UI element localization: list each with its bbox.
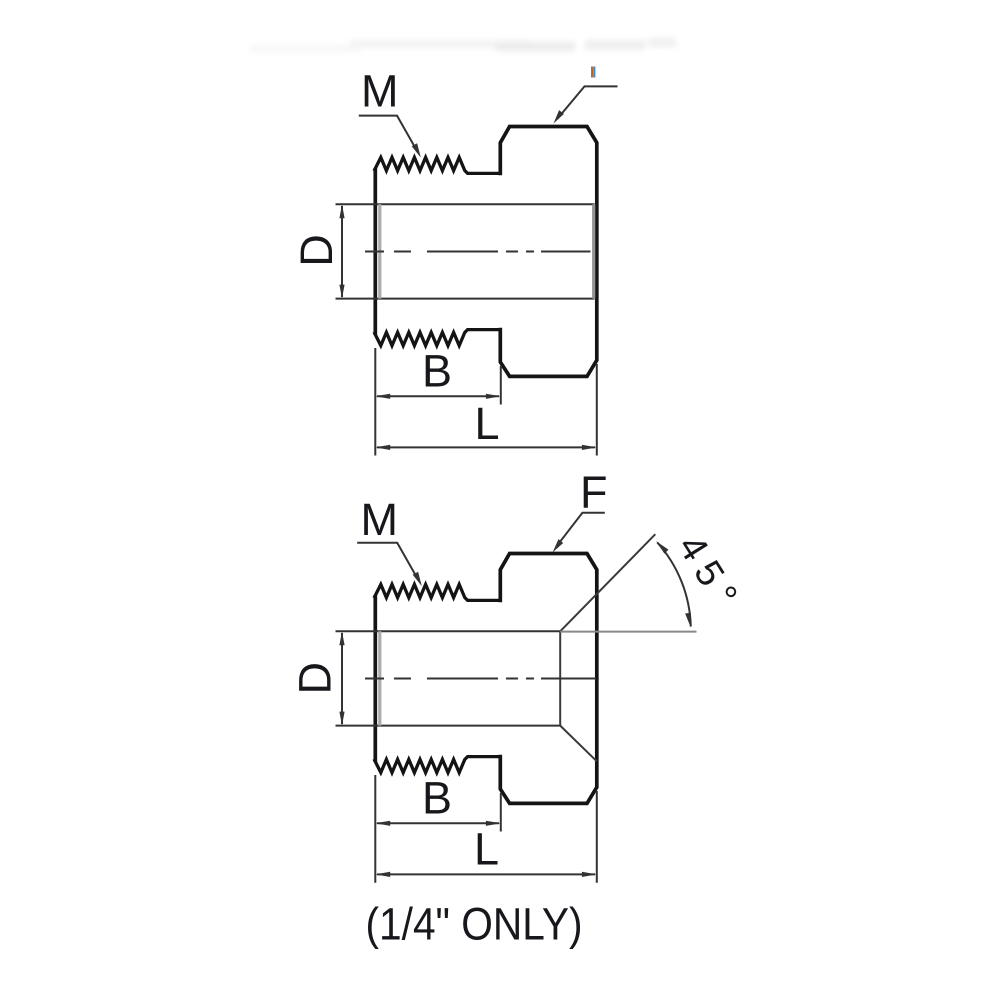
top view: gray bore end line right bbox=[592, 204, 595, 298]
svg-text:B: B bbox=[422, 773, 452, 824]
bottom view: bore top line bbox=[336, 630, 561, 632]
bottom view: gray face band left bbox=[378, 631, 381, 725]
top view: B dimension bbox=[375, 348, 501, 456]
bottom view: hex body outline bbox=[500, 554, 597, 804]
bottom view: B dimension bbox=[375, 775, 501, 883]
L right extension line bbox=[596, 364, 598, 456]
B right extension line bbox=[500, 366, 502, 405]
top view: lower thread zigzag and root bbox=[374, 330, 500, 346]
L dimension line bbox=[377, 873, 595, 875]
svg-text:M: M bbox=[361, 66, 399, 117]
bottom view: centerline bbox=[365, 678, 596, 680]
svg-text:B: B bbox=[422, 346, 452, 397]
svg-text:L: L bbox=[474, 824, 499, 875]
top view: D dimension line with arrows bbox=[339, 204, 344, 298]
L dimension line bbox=[377, 446, 595, 448]
bottom view: D dimension line with arrows bbox=[339, 631, 344, 725]
svg-text:L: L bbox=[474, 398, 499, 449]
bottom view: M leader bbox=[357, 543, 422, 586]
svg-text:F: F bbox=[580, 467, 608, 518]
bottom view: upper thread zigzag and root bbox=[374, 584, 500, 600]
left extension line bbox=[374, 775, 376, 883]
svg-text:M: M bbox=[361, 494, 399, 545]
B right extension line bbox=[500, 793, 502, 832]
svg-text:(1/4" ONLY): (1/4" ONLY) bbox=[366, 899, 583, 950]
bottom view: F leader bbox=[553, 513, 605, 553]
faint ghost smudges top bbox=[250, 38, 676, 52]
bottom view: L dimension bbox=[375, 791, 597, 883]
top view: F letter stub remnant bbox=[591, 67, 593, 78]
top view: hex body outline bbox=[500, 127, 597, 377]
top view: upper thread zigzag and root bbox=[374, 157, 500, 173]
svg-text:45°: 45° bbox=[669, 528, 749, 622]
B dimension line bbox=[377, 395, 499, 397]
bottom view: lower thread zigzag and root bbox=[374, 757, 500, 773]
top view: centerline bbox=[365, 251, 591, 253]
top view: L dimension bbox=[375, 364, 597, 456]
svg-text:D: D bbox=[290, 662, 341, 695]
svg-text:D: D bbox=[291, 234, 342, 267]
bottom view: left face edge bbox=[373, 597, 377, 760]
L right extension line bbox=[596, 791, 598, 883]
bottom view: countersink upper cone + 45 deg reference bbox=[560, 534, 655, 631]
bottom view: 45 deg arc with arrows bbox=[657, 543, 691, 627]
top view: bore top line bbox=[336, 203, 595, 205]
bottom view: 45 deg horizontal reference line bbox=[560, 631, 696, 633]
bottom view: countersink lower cone bbox=[560, 726, 597, 762]
left extension line bbox=[374, 348, 376, 456]
bottom view: bore bottom line bbox=[336, 725, 561, 727]
top view: left face edge bbox=[373, 170, 377, 333]
top view: F leader (label cut off at top) bbox=[554, 86, 618, 123]
top view: M leader bbox=[359, 116, 421, 158]
top view: gray face band left bbox=[378, 204, 381, 298]
top view: bore bottom line bbox=[336, 298, 595, 300]
bottom view: bore end vertical bbox=[559, 631, 561, 725]
B dimension line bbox=[377, 822, 499, 824]
